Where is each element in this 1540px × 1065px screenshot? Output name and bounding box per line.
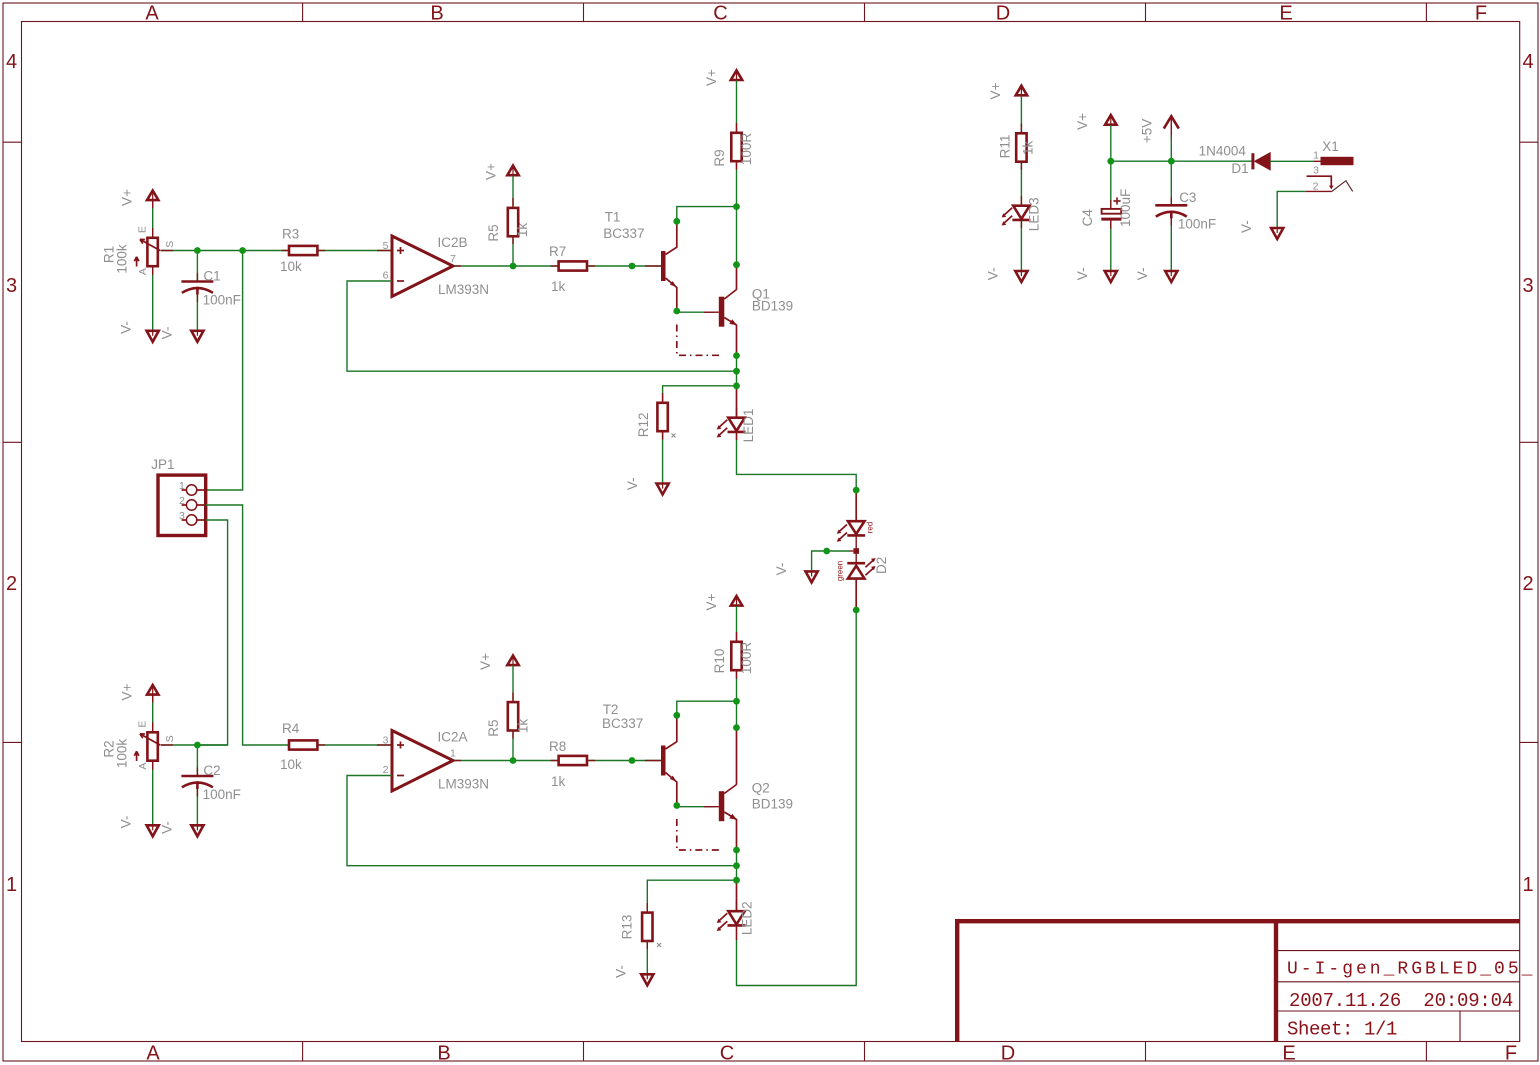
svg-text:2007.11.26 20:09:04: 2007.11.26 20:09:04 (1289, 990, 1513, 1012)
wire T2 emitter to Q2 base (677, 805, 714, 807)
svg-text:E: E (1282, 1043, 1295, 1065)
wire IC2A pin1 output (453, 760, 558, 762)
junction R10 / T2 collector (733, 698, 740, 705)
supply V- symbol (below C2) (191, 825, 203, 836)
svg-text:100uF: 100uF (1118, 189, 1133, 227)
svg-text:100k: 100k (115, 739, 130, 769)
svg-text:100R: 100R (739, 642, 754, 675)
LED LED1 emission arrows (718, 420, 727, 429)
svg-text:V+: V+ (704, 593, 719, 610)
wire T2 collector up (677, 701, 737, 716)
supply V- symbol (below LED3) (1015, 271, 1027, 282)
resistor R4 body (289, 740, 317, 749)
svg-text:5: 5 (383, 240, 389, 252)
svg-text:T1: T1 (605, 210, 621, 225)
LED LED2 (728, 911, 746, 925)
junction R5 / IC2B output (510, 263, 517, 270)
resistor R11 body (1016, 133, 1026, 161)
svg-text:R4: R4 (282, 721, 300, 736)
wire V+ to R5 (512, 176, 514, 207)
svg-text:C2: C2 (203, 763, 220, 778)
junction R5 / IC2A output (510, 757, 517, 764)
resistor R5 (bottom) body (508, 702, 518, 730)
svg-text:V+: V+ (120, 189, 135, 206)
connector JP1 body (158, 475, 206, 535)
svg-text:F: F (1505, 1043, 1517, 1065)
supply V+ symbol (above R2) (147, 685, 158, 695)
wire R1 A to V- (152, 266, 154, 331)
supply V- symbol (below R12) (657, 484, 669, 495)
resistor R10 body (731, 642, 741, 670)
svg-text:100nF: 100nF (203, 787, 241, 802)
transistor T1 collector pin (666, 221, 677, 255)
svg-text:V-: V- (625, 477, 640, 490)
X1 sleeve spring contact (1332, 181, 1353, 192)
svg-text:3: 3 (383, 735, 389, 747)
D2 center node wires (855, 535, 857, 563)
supply V+ symbol (above R9) (731, 70, 742, 80)
transistor T1 base bar (661, 251, 666, 281)
svg-text:2: 2 (6, 573, 17, 595)
op-amp IC2B (392, 236, 453, 297)
svg-text:V-: V- (614, 965, 629, 978)
svg-text:R12: R12 (636, 413, 651, 438)
svg-text:V+: V+ (988, 82, 1003, 99)
svg-text:1: 1 (1313, 150, 1319, 162)
supply V+ symbol (above R1) (147, 191, 158, 201)
wire V+ to R1 E (152, 201, 154, 237)
svg-text:V-: V- (119, 321, 134, 334)
svg-text:B: B (437, 1043, 450, 1065)
svg-text:2: 2 (383, 764, 389, 776)
wire IC2B pin7 output (453, 265, 558, 267)
potentiometer R1 wiper arrow (134, 239, 160, 266)
wire V+ to +5V rail node (1110, 125, 1112, 161)
junction R12 branch (733, 382, 740, 389)
svg-text:S: S (164, 735, 176, 742)
svg-text:100k: 100k (115, 244, 130, 274)
junction R9 / T1 collector (733, 203, 740, 210)
wire R3 to IC2B pin5 (318, 250, 392, 252)
connector JP1 pin 1 (179, 480, 206, 495)
svg-text:1k: 1k (1021, 141, 1036, 156)
wire D2 center to V- (812, 551, 849, 571)
junction +5V rail / C4 (1107, 158, 1114, 165)
svg-text:R9: R9 (712, 149, 727, 166)
junction R2 wiper / C2 (194, 742, 201, 749)
svg-text:V-: V- (160, 327, 175, 340)
transistor Q1 collector pin (724, 290, 736, 300)
frame column dividers bottom band (303, 1042, 1427, 1062)
junction D2 center to V- (823, 548, 830, 555)
dual LED D2 (red half) (847, 521, 865, 535)
svg-text:BD139: BD139 (752, 298, 793, 313)
plus sign (C4) (1113, 197, 1120, 204)
supply V- symbol (below X1) (1271, 228, 1283, 239)
supply V- symbol (below C1) (191, 331, 203, 342)
wire V+ to R2 E (152, 695, 154, 731)
wire T1 collector up (677, 207, 737, 222)
wire IC2A pin2 feedback (347, 776, 737, 866)
capacitor C2 (181, 776, 213, 789)
svg-text:LM393N: LM393N (438, 282, 489, 297)
wire node to JP1 pin1 (206, 251, 243, 491)
svg-text:1: 1 (6, 874, 17, 896)
potentiometer R1 body (147, 238, 157, 266)
junction IC2B feedback (733, 368, 740, 375)
wire R5 to output node (512, 236, 514, 266)
svg-text:1k: 1k (551, 279, 566, 294)
svg-text:3: 3 (1313, 164, 1319, 176)
LED2 anode pin vertical (736, 880, 738, 911)
wire Q2 emitter down to LED2 (736, 819, 738, 850)
transistor Q1 base bar (719, 297, 725, 327)
wire LED3 to V- (1020, 220, 1022, 271)
svg-text:IC2A: IC2A (438, 730, 468, 745)
thermal coupling dash-dot (T2/Q2) (677, 819, 722, 850)
svg-text:S: S (164, 241, 176, 248)
D2 red emission arrows (838, 525, 847, 533)
svg-text:100nF: 100nF (1178, 216, 1216, 231)
wire X1 pin2 to V- (1277, 191, 1306, 228)
frame row dividers left band (3, 142, 22, 742)
wire node to C1 (196, 251, 198, 282)
transistor Q2 collector pin (724, 785, 736, 794)
svg-text:100nF: 100nF (203, 293, 241, 308)
supply V+ symbol (above R5 bottom) (507, 656, 518, 666)
junction R1 wiper / C1 (194, 247, 201, 254)
svg-text:V+: V+ (704, 69, 719, 86)
svg-text:C: C (720, 1043, 734, 1065)
svg-text:10k: 10k (280, 757, 302, 772)
svg-text:V-: V- (1239, 220, 1254, 233)
svg-text:R5: R5 (486, 224, 501, 241)
wire C1 to V- (196, 294, 198, 331)
wire R2 A to V- (152, 761, 154, 826)
junction T1 emitter / Q1 base (673, 308, 680, 315)
svg-text:2: 2 (1522, 573, 1533, 595)
junction R13 branch (733, 877, 740, 884)
transistor Q2 base bar (719, 791, 725, 821)
wire node to C2 (196, 745, 198, 776)
wire R13 to V- (646, 941, 648, 975)
svg-text:LED3: LED3 (1026, 197, 1041, 231)
svg-text:C: C (713, 3, 727, 25)
svg-text:B: B (430, 3, 443, 25)
wire R8 to T2 base (588, 760, 661, 762)
title block thick outline (955, 919, 1520, 1042)
svg-text:3: 3 (1522, 275, 1533, 297)
resistor R12 body (657, 403, 667, 431)
junction T2 collector (673, 712, 680, 719)
svg-text:3: 3 (6, 275, 17, 297)
LED LED3 (1012, 206, 1030, 220)
value mark (R12) (672, 434, 676, 438)
svg-text:Q2: Q2 (752, 781, 770, 796)
frame column letters top (145, 3, 1487, 25)
wire R1 wiper to R3 (node S1) (161, 250, 288, 252)
supply V- symbol (below C3) (1165, 271, 1177, 282)
svg-text:D: D (1001, 1043, 1015, 1065)
svg-text:V-: V- (160, 821, 175, 834)
wire +5V rail horizontal (1111, 160, 1252, 162)
svg-text:A: A (137, 763, 149, 770)
transistor T1 emitter pin (666, 278, 677, 311)
svg-text:4: 4 (1522, 51, 1533, 73)
wire V+ to R9 (736, 80, 738, 131)
wire R12 to V- (662, 431, 664, 484)
svg-text:A: A (146, 1043, 160, 1065)
wire R2 wiper to node (161, 744, 228, 746)
svg-text:2: 2 (179, 495, 185, 507)
connector X1 center pin bar (1321, 157, 1353, 164)
LED1 anode pin vertical (736, 386, 738, 418)
wire C3 to V- (1170, 217, 1172, 271)
pin stubs R1 (152, 228, 154, 237)
svg-text:X1: X1 (1322, 139, 1339, 154)
wire JP1 pin2 to bottom channel (206, 505, 289, 745)
svg-text:C1: C1 (203, 269, 220, 284)
frame row dividers right band (1520, 142, 1538, 742)
svg-text:D: D (996, 3, 1010, 25)
svg-text:red: red (866, 522, 875, 534)
svg-text:1k: 1k (551, 774, 566, 789)
wire node to R13 (647, 880, 736, 911)
svg-text:1: 1 (450, 748, 456, 760)
junction D2 red anode (853, 487, 860, 494)
svg-text:V-: V- (986, 268, 1001, 281)
wire R5 to output node (bottom) (512, 730, 514, 760)
LED LED3 emission arrows (1003, 208, 1012, 217)
svg-text:BD139: BD139 (752, 797, 793, 812)
svg-text:C4: C4 (1080, 209, 1095, 227)
LED LED2 emission arrows (718, 913, 727, 922)
wire C4 to V- (1110, 221, 1112, 272)
transistor Q1 emitter pin (724, 318, 736, 326)
pin labels E S A (R1) (136, 226, 176, 275)
svg-text:1k: 1k (515, 223, 530, 238)
svg-text:C3: C3 (1179, 190, 1196, 205)
capacitor C3 (1155, 205, 1187, 218)
wire R7 to T1 base (588, 265, 661, 267)
supply V+ symbol (above R11) (1016, 86, 1027, 96)
svg-text:V+: V+ (1075, 113, 1090, 130)
transistor T2 emitter pin (666, 773, 677, 806)
pin labels E S A (R2) (136, 721, 176, 770)
supply V- symbol (below R2) (147, 825, 159, 836)
frame row numbers right (1522, 51, 1533, 896)
Q2 collector pin vertical (736, 728, 738, 785)
svg-text:LM393N: LM393N (438, 777, 489, 792)
wire R11 to LED3 (1020, 161, 1022, 204)
transistor T2 emitter arrow (670, 776, 677, 782)
svg-text:A: A (145, 3, 159, 25)
svg-text:3: 3 (179, 510, 185, 522)
wire D1 to X1 pin1 (1270, 160, 1314, 162)
transistor Q1 emitter arrow (729, 319, 737, 325)
svg-text:E: E (136, 721, 148, 728)
svg-text:V+: V+ (120, 683, 135, 700)
wire V+ to R5 (bottom) (512, 666, 514, 701)
svg-text:R10: R10 (712, 649, 727, 674)
transistor T1 emitter arrow (670, 281, 677, 287)
wire C2 to V- (196, 788, 198, 825)
junction T1 collector (673, 218, 680, 225)
svg-text:R7: R7 (549, 244, 566, 259)
thermal coupling dash-dot (T1/Q1) (677, 325, 722, 356)
resistor R13 body (642, 913, 652, 941)
svg-text:1: 1 (1522, 874, 1533, 896)
D2 green emission arrows (865, 567, 874, 575)
transistor Q2 emitter arrow (729, 814, 737, 820)
wire node to C4 (1110, 161, 1112, 208)
svg-text:6: 6 (383, 270, 389, 282)
resistor R8 body (559, 756, 587, 765)
junction Q2 emitter (733, 847, 740, 854)
capacitor C4 (polarized) (1101, 209, 1121, 219)
svg-text:IC2B: IC2B (438, 235, 468, 250)
junction T2 emitter / Q2 base (673, 802, 680, 809)
wire node to R12 (663, 386, 737, 402)
junction wiper net / JP1 pin1 (239, 247, 246, 254)
title block thin dividers (1276, 951, 1520, 1042)
svg-text:E: E (1279, 3, 1292, 25)
X1 pin 2 lead (1306, 190, 1332, 192)
X1 switch pin 3 (1307, 176, 1332, 186)
svg-text:U-I-gen_RGBLED_05_: U-I-gen_RGBLED_05_ (1287, 960, 1535, 980)
wire LED1 to D2 chain (737, 432, 857, 490)
svg-text:100R: 100R (739, 133, 754, 166)
wire node to C3 (1170, 161, 1172, 205)
D2 green anode pin vertical (855, 578, 857, 610)
svg-text:BC337: BC337 (602, 716, 643, 731)
potentiometer R2 body (147, 732, 157, 760)
op-amp IC2A (392, 731, 453, 792)
connector JP1 pin 3 (179, 510, 206, 525)
junction Q1 emitter (733, 352, 740, 359)
capacitor C1 (181, 282, 213, 295)
frame column dividers top band (303, 3, 1427, 22)
svg-text:E: E (136, 226, 148, 233)
supply V+ symbol (above R5 top) (507, 166, 518, 176)
Q1 collector pin vertical (736, 265, 738, 290)
transistor Q2 emitter pin (724, 812, 736, 820)
wire R4 to IC2A pin3 (318, 744, 392, 746)
svg-text:10k: 10k (280, 259, 302, 274)
wire V+ to R10 (736, 606, 738, 641)
wire Q1 emitter down to LED1 (736, 325, 738, 356)
svg-text:V+: V+ (478, 653, 493, 670)
wire R9 to Q1 collector (main rail) (736, 161, 738, 265)
svg-text:4: 4 (6, 51, 17, 73)
svg-text:1k: 1k (516, 719, 531, 734)
X1 switch contact mark (1329, 186, 1334, 190)
diode D1 1N4004 (1253, 153, 1270, 169)
svg-text:R11: R11 (998, 135, 1013, 159)
potentiometer R2 wiper arrow (134, 734, 160, 761)
dual LED D2 (green half) (847, 563, 865, 578)
wire T1 emitter to Q1 base (677, 311, 714, 313)
junction R7 / T1 base (629, 263, 636, 270)
svg-text:R3: R3 (282, 227, 299, 242)
junction rail above Q1 collector (733, 261, 740, 268)
svg-text:A: A (137, 268, 149, 275)
svg-text:LED1: LED1 (741, 409, 756, 443)
svg-text:F: F (1475, 3, 1487, 25)
junction rail above Q2 collector (733, 724, 740, 731)
wire IC2B pin6 feedback (347, 281, 737, 371)
resistor R9 body (731, 133, 741, 161)
supply V+ symbol (above R10) (731, 596, 742, 606)
svg-text:BC337: BC337 (603, 226, 644, 241)
resistor R3 body (289, 246, 317, 255)
svg-text:V+: V+ (484, 163, 499, 180)
svg-text:T2: T2 (603, 702, 619, 717)
svg-text:R13: R13 (620, 915, 635, 940)
junction D2 green anode (853, 607, 860, 614)
svg-text:V-: V- (774, 563, 789, 576)
svg-text:R5: R5 (486, 719, 501, 736)
supply V+ symbol (above C4) (1105, 115, 1116, 125)
wire JP1 pin3 to bottom wiper node (197, 520, 227, 745)
supply +5V symbol (1164, 116, 1179, 140)
frame row numbers left (6, 51, 17, 896)
resistor R5 (top) body (508, 208, 518, 236)
svg-text:+5V: +5V (1140, 119, 1155, 143)
connector JP1 pin 2 (179, 495, 206, 510)
frame column letters bottom (146, 1043, 1517, 1065)
supply V- symbol (below D2 node) (806, 571, 818, 582)
transistor T2 base bar (661, 746, 666, 776)
supply V- symbol (below R13) (641, 974, 653, 985)
svg-text:1: 1 (179, 480, 185, 492)
wire V+ to R11 (1020, 96, 1022, 132)
junction R8 / T2 base (629, 757, 636, 764)
svg-text:green: green (835, 561, 844, 581)
supply V- symbol (below C4) (1105, 271, 1117, 282)
wire +5V to rail (1170, 135, 1172, 161)
value mark (R13) (657, 943, 661, 947)
svg-text:R8: R8 (549, 739, 566, 754)
resistor R7 body (559, 261, 587, 270)
svg-text:D1: D1 (1231, 161, 1248, 176)
svg-text:1N4004: 1N4004 (1199, 144, 1247, 159)
svg-text:V-: V- (119, 816, 134, 829)
junction +5V rail / C3 (1168, 158, 1175, 165)
node dot D2 center (853, 548, 859, 554)
svg-text:V-: V- (1075, 268, 1090, 281)
transistor T2 collector pin (666, 716, 677, 750)
svg-text:7: 7 (450, 253, 456, 265)
wire R10 to Q2 collector (main rail) (736, 670, 738, 728)
svg-text:D2: D2 (874, 557, 889, 574)
svg-text:Sheet: 1/1: Sheet: 1/1 (1287, 1019, 1397, 1041)
svg-text:JP1: JP1 (151, 457, 174, 472)
svg-text:V-: V- (1135, 268, 1150, 281)
supply V- symbol (below R1) (147, 331, 159, 342)
D2 red anode pin vertical (855, 490, 857, 521)
junction IC2A feedback (733, 862, 740, 869)
svg-text:LED2: LED2 (740, 901, 755, 935)
LED LED1 (728, 418, 746, 432)
